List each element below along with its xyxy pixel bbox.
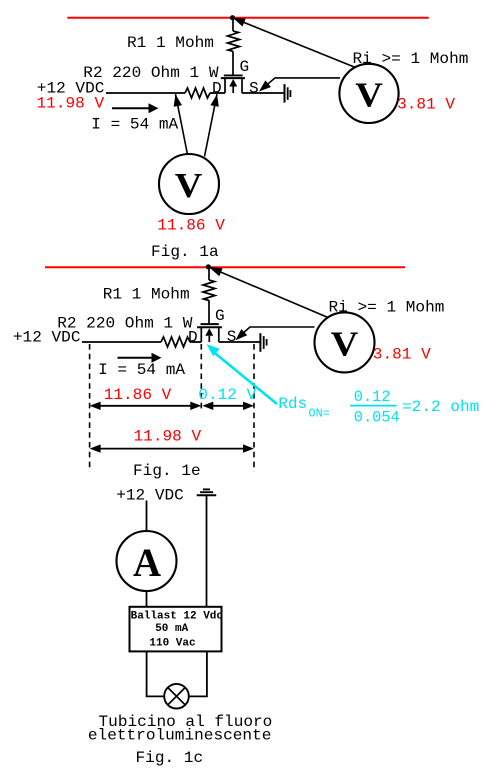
transistor Q2 body arrow: [208, 336, 210, 342]
svg-text:11.98 V: 11.98 V: [134, 428, 202, 446]
transistor Q2 drain lead: [200, 327, 202, 342]
wire +12 VDC to resistor R4: [82, 341, 161, 343]
wire +12 VDC to resistor R2: [106, 92, 185, 94]
resistor R1 (1 Mohm, vertical zigzag): [228, 31, 240, 51]
voltmeter V2 lead to drain-resistor junction: [176, 94, 188, 154]
transistor Q1 drain lead: [224, 78, 226, 93]
svg-text:R1 1 Mohm: R1 1 Mohm: [127, 34, 214, 52]
svg-text:+12 VDC: +12 VDC: [13, 328, 81, 346]
transistor Q1 MOSFET gate plate: [224, 74, 243, 76]
voltmeter V3: [315, 312, 375, 372]
svg-text:G: G: [215, 307, 225, 325]
svg-text:Ri >= 1 Mohm: Ri >= 1 Mohm: [353, 50, 469, 68]
Rds annotation pointer arrow (cyan): [213, 352, 277, 405]
resistor R2 (220 Ohm, horizontal zigzag): [185, 88, 210, 98]
wire R2 to drain of Q1: [210, 92, 225, 94]
svg-text:G: G: [240, 58, 250, 76]
current arrow I (Fig 1e): [118, 357, 153, 359]
svg-text:3.81 V: 3.81 V: [397, 95, 455, 113]
wire R4 to drain of Q2: [190, 341, 201, 343]
svg-text:I = 54 mA: I = 54 mA: [98, 361, 185, 379]
svg-text:3.81 V: 3.81 V: [373, 346, 431, 364]
node A (junction dot on rail, Fig 1a): [230, 15, 235, 20]
wire source of Q2 to ground: [219, 341, 260, 343]
voltmeter V1 lead to source wire: [261, 78, 340, 90]
transistor Q1 body arrow: [232, 87, 234, 94]
dashed extension line left: [89, 344, 91, 472]
svg-text:0.054: 0.054: [354, 408, 400, 426]
ammeter A1: [117, 531, 177, 591]
dimension arrow 11.86 V: [94, 405, 197, 407]
svg-text:Fig. 1a: Fig. 1a: [151, 243, 219, 261]
supply rail (red bus line, Fig 1a): [67, 17, 429, 19]
ground (Fig 1a, right-facing): [284, 84, 286, 103]
wire ground to ballast box right: [206, 495, 208, 607]
svg-text:V: V: [331, 324, 359, 363]
svg-text:11.86 V: 11.86 V: [104, 386, 172, 404]
ground (Fig 1e, right-facing): [259, 333, 261, 352]
transistor Q1 channel bar: [221, 77, 245, 79]
svg-text:V: V: [175, 165, 203, 204]
transistor Q1 source lead: [241, 78, 243, 93]
svg-text:elettroluminescente: elettroluminescente: [88, 727, 272, 745]
svg-text:S: S: [249, 80, 259, 98]
wire node B to resistor R3: [208, 267, 210, 280]
svg-text:11.86 V: 11.86 V: [157, 216, 225, 234]
wire R3 to gate of Q2: [208, 300, 210, 324]
dashed extension line middle: [200, 344, 202, 412]
svg-text:110 Vac: 110 Vac: [149, 638, 195, 650]
svg-text:+12 VDC: +12 VDC: [116, 486, 184, 504]
wire R1 to gate of Q1: [232, 51, 234, 75]
supply rail (red bus line, Fig 1e): [45, 266, 405, 268]
voltmeter V2: [159, 154, 219, 214]
resistor R3 (R1 1 Mohm of Fig 1e, vertical zigzag): [203, 280, 215, 301]
wire ballast box left to lamp: [147, 651, 165, 696]
svg-text:Rds: Rds: [278, 395, 307, 413]
resistor R4 (R2 220 Ohm of Fig 1e, horizontal zigzag): [161, 337, 190, 347]
transistor Q2 MOSFET gate plate: [201, 323, 219, 325]
svg-text:Fig. 1e: Fig. 1e: [133, 462, 201, 480]
svg-text:I = 54 mA: I = 54 mA: [91, 115, 178, 133]
transistor Q2 source lead: [218, 327, 220, 342]
wire source of Q1 to ground: [242, 92, 284, 94]
lamp L1 (circle with X): [164, 684, 189, 709]
node B (junction dot on rail, Fig 1e): [206, 264, 211, 269]
wire +12 VDC to ammeter A1: [146, 501, 148, 532]
dashed extension line right: [253, 344, 255, 472]
svg-text:R1 1 Mohm: R1 1 Mohm: [103, 285, 190, 303]
svg-text:=2.2 ohm: =2.2 ohm: [402, 398, 479, 416]
dimension arrow 11.98 V: [94, 448, 249, 450]
current arrow I: [112, 107, 149, 109]
svg-text:Ri >= 1 Mohm: Ri >= 1 Mohm: [329, 299, 445, 317]
transistor Q2 channel bar: [197, 326, 222, 328]
wire ammeter A1 to ballast box: [146, 591, 148, 607]
voltmeter V1: [339, 64, 398, 123]
voltmeter V3 lead to node B: [209, 267, 328, 318]
svg-text:V: V: [355, 75, 383, 114]
svg-text:Ballast 12 Vdc: Ballast 12 Vdc: [131, 611, 223, 623]
ballast box U1: [130, 607, 222, 652]
svg-text:11.98 V: 11.98 V: [37, 94, 105, 112]
wire node A to resistor R1: [232, 18, 234, 31]
voltmeter V3 lead to source wire: [238, 327, 315, 338]
svg-text:Fig. 1c: Fig. 1c: [136, 749, 204, 767]
wire ballast box right to lamp: [189, 651, 207, 696]
dimension arrow 0.12 V: [207, 405, 249, 407]
svg-text:ON=: ON=: [309, 407, 330, 421]
svg-text:0.12: 0.12: [354, 388, 391, 406]
Rds fraction bar: [350, 405, 397, 407]
svg-text:50 mA: 50 mA: [155, 623, 188, 635]
svg-text:A: A: [133, 540, 162, 585]
voltmeter V1 lead to node A: [233, 18, 356, 68]
svg-text:S: S: [227, 328, 237, 346]
svg-text:0.12 V: 0.12 V: [198, 386, 256, 404]
ground (Fig 1c, top, up-facing): [203, 488, 210, 490]
voltmeter V2 lead to drain of Q1: [205, 94, 218, 156]
